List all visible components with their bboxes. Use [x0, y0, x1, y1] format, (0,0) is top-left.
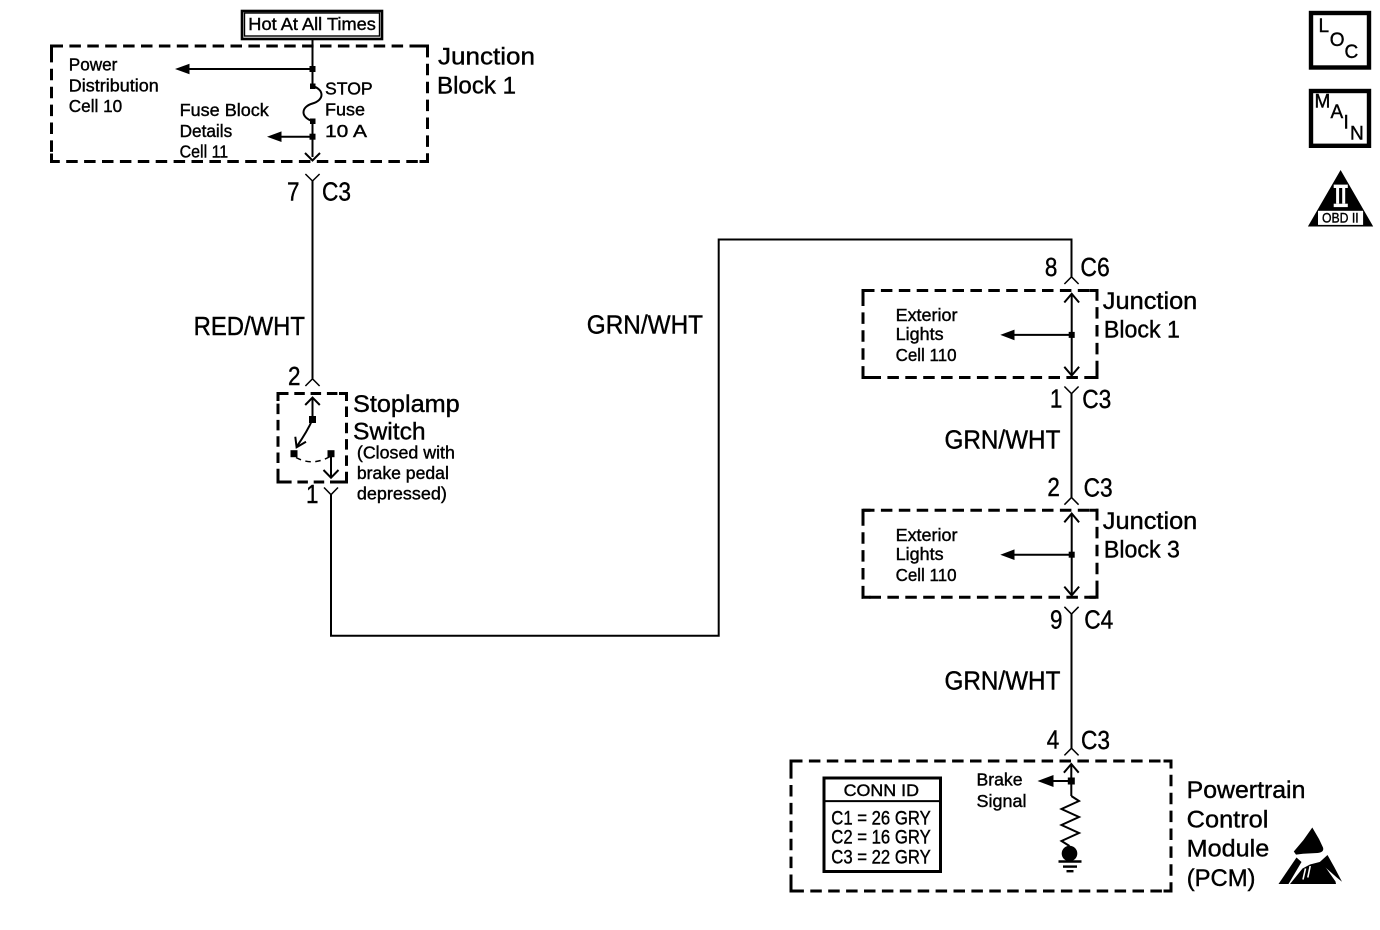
PCM node junction dot — [1068, 778, 1075, 785]
svg-text:C4: C4 — [1084, 605, 1113, 635]
svg-text:depressed): depressed) — [357, 483, 447, 503]
wire GRN/WHT between JB1 and JB3 — [1071, 394, 1073, 498]
svg-text:1: 1 — [306, 479, 319, 509]
svg-text:(Closed with: (Closed with — [357, 443, 455, 463]
svg-text:7: 7 — [287, 177, 300, 207]
JB3 arrow to Exterior Lights — [1000, 549, 1071, 560]
svg-text:2: 2 — [288, 361, 301, 391]
switch common node dot — [309, 416, 316, 423]
switch arrow down to pin 1 — [324, 454, 339, 478]
connector 9 C4 symbol — [1050, 605, 1113, 635]
wire from Hot At All Times into fuse — [312, 39, 314, 86]
svg-text:Block 3: Block 3 — [1104, 536, 1180, 563]
svg-text:Fuse Block: Fuse Block — [180, 100, 269, 120]
label Brake Signal — [977, 769, 1027, 811]
JB1 arrow to Exterior Lights — [1000, 330, 1071, 341]
wire GRN/WHT between JB3 and PCM — [1071, 614, 1073, 748]
svg-text:C3 = 22 GRY: C3 = 22 GRY — [831, 848, 931, 869]
label Fuse Block Details Cell 11 — [180, 100, 269, 161]
connector 8 C6 symbol — [1045, 252, 1110, 284]
connector 7 C3 symbol — [287, 174, 351, 207]
switch closed-position dashed arc — [296, 457, 330, 462]
svg-text:Powertrain: Powertrain — [1187, 777, 1306, 804]
svg-text:RED/WHT: RED/WHT — [194, 311, 305, 341]
label RED/WHT — [194, 311, 305, 341]
CONN ID table — [824, 778, 941, 872]
ESD warning symbol — [1279, 828, 1343, 885]
label Junction Block 1 (top) — [437, 44, 535, 100]
arrow to Power Distribution Cell 10 — [175, 64, 313, 75]
svg-text:C3: C3 — [322, 177, 351, 207]
MAIN legend box — [1311, 91, 1369, 146]
svg-text:GRN/WHT: GRN/WHT — [945, 424, 1061, 454]
svg-text:2: 2 — [1047, 472, 1060, 502]
svg-text:OBD II: OBD II — [1322, 210, 1359, 226]
label Junction Block 3 — [1103, 508, 1198, 563]
svg-text:Block 1: Block 1 — [437, 73, 516, 100]
svg-text:Cell 110: Cell 110 — [896, 345, 957, 365]
label Power Distribution Cell 10 — [69, 55, 159, 116]
svg-text:Module: Module — [1187, 836, 1270, 863]
label (Closed with brake pedal depressed) — [357, 443, 455, 504]
connector 1 symbol below stoplamp switch — [306, 479, 338, 509]
svg-text:C2 = 16 GRY: C2 = 16 GRY — [831, 828, 931, 849]
JB1 internal arrow down — [1064, 335, 1079, 376]
switch blade (open) with arrowhead — [295, 420, 312, 448]
node junction dot to Fuse Block Details — [310, 134, 316, 140]
svg-text:Fuse: Fuse — [325, 100, 365, 120]
svg-text:10 A: 10 A — [325, 121, 367, 141]
svg-text:O: O — [1330, 30, 1345, 51]
label Exterior Lights Cell 110 (JB3) — [896, 525, 958, 585]
JB1 internal arrow up — [1064, 294, 1079, 335]
svg-text:Junction: Junction — [438, 44, 535, 71]
OBD II triangle symbol — [1308, 170, 1373, 227]
connector 1 C3 symbol — [1050, 384, 1111, 414]
svg-text:9: 9 — [1050, 605, 1063, 635]
wire fuse to connector 7 C3 — [312, 121, 314, 157]
connector 2 symbol at stoplamp switch — [288, 361, 320, 391]
resistor (brake signal pull) — [1062, 781, 1080, 846]
svg-text:Lights: Lights — [896, 544, 944, 564]
svg-text:Exterior: Exterior — [896, 525, 958, 545]
svg-text:I: I — [1344, 112, 1349, 133]
svg-text:Stoplamp: Stoplamp — [353, 391, 460, 418]
connector 2 C3 symbol — [1047, 472, 1112, 505]
Hot At All Times label box — [242, 11, 382, 39]
wire from stoplamp switch to junction block 1 (long route) — [331, 240, 1072, 636]
svg-text:GRN/WHT: GRN/WHT — [945, 665, 1061, 695]
switch arrow up to pin 2 — [305, 398, 320, 420]
junction block 3 dashed box — [863, 510, 1097, 597]
label Exterior Lights Cell 110 (JB1) — [896, 305, 958, 365]
svg-text:Hot At All Times: Hot At All Times — [248, 14, 376, 34]
svg-text:Junction: Junction — [1103, 508, 1198, 535]
svg-text:Block 1: Block 1 — [1104, 316, 1180, 343]
arrow to Fuse Block Details Cell 11 — [267, 131, 313, 142]
svg-text:Cell 11: Cell 11 — [180, 142, 229, 162]
svg-text:8: 8 — [1045, 252, 1058, 282]
label Junction Block 1 (right) — [1103, 288, 1198, 343]
svg-text:CONN ID: CONN ID — [844, 782, 919, 800]
JB3 internal arrow down — [1064, 555, 1079, 596]
JB1 node junction dot — [1069, 332, 1075, 338]
svg-text:Lights: Lights — [896, 324, 944, 344]
label STOP Fuse 10 A — [325, 79, 373, 141]
svg-text:Brake: Brake — [977, 769, 1023, 789]
svg-text:C3: C3 — [1084, 472, 1113, 502]
stoplamp switch dashed box — [278, 394, 347, 483]
svg-text:Cell 10: Cell 10 — [69, 96, 123, 116]
svg-text:A: A — [1331, 102, 1344, 123]
label Powertrain Control Module (PCM) — [1187, 777, 1306, 892]
label Stoplamp Switch — [353, 391, 460, 446]
svg-text:Details: Details — [180, 121, 233, 141]
fuse STOP Fuse 10 A — [304, 84, 322, 125]
svg-text:Power: Power — [69, 55, 118, 75]
switch contact node right — [328, 450, 335, 457]
svg-text:C: C — [1345, 42, 1359, 63]
svg-text:M: M — [1315, 91, 1331, 112]
JB3 node junction dot — [1069, 552, 1075, 558]
LOC legend box — [1311, 13, 1369, 68]
powertrain control module dashed box — [791, 761, 1171, 891]
svg-text:STOP: STOP — [325, 79, 373, 99]
svg-text:Control: Control — [1187, 806, 1269, 833]
PCM arrow to Brake Signal — [1038, 775, 1072, 787]
svg-text:1: 1 — [1050, 384, 1063, 414]
node junction dot to Power Distribution — [310, 66, 316, 72]
svg-text:Exterior: Exterior — [896, 305, 958, 325]
switch contact node left — [291, 450, 298, 457]
label GRN/WHT (left) — [587, 310, 703, 340]
svg-text:C3: C3 — [1081, 725, 1110, 755]
svg-text:4: 4 — [1047, 724, 1060, 754]
connector 4 C3 symbol — [1047, 724, 1110, 755]
label GRN/WHT (middle right) — [945, 424, 1061, 454]
svg-text:(PCM): (PCM) — [1187, 865, 1256, 892]
svg-text:Cell 110: Cell 110 — [896, 565, 957, 585]
label GRN/WHT (lower right) — [945, 665, 1061, 695]
svg-text:Distribution: Distribution — [69, 75, 159, 95]
svg-text:Switch: Switch — [353, 418, 426, 445]
svg-text:L: L — [1319, 16, 1330, 37]
junction block 1 dashed box (right) — [863, 291, 1097, 378]
JB3 internal arrow up — [1064, 514, 1079, 555]
svg-text:brake pedal: brake pedal — [357, 463, 449, 483]
svg-text:N: N — [1350, 124, 1364, 145]
svg-text:Signal: Signal — [977, 791, 1027, 811]
svg-text:C1 = 26 GRY: C1 = 26 GRY — [831, 808, 931, 829]
svg-text:C3: C3 — [1082, 384, 1111, 414]
junction block 1 (fuse block) dashed box — [52, 46, 428, 162]
ground symbol — [1059, 846, 1082, 872]
svg-text:GRN/WHT: GRN/WHT — [587, 310, 703, 340]
PCM internal arrow up — [1064, 764, 1079, 781]
svg-text:C6: C6 — [1080, 252, 1109, 282]
wire RED/WHT vertical — [312, 181, 314, 379]
svg-text:Junction: Junction — [1103, 288, 1198, 315]
arrowhead down at block exit — [305, 153, 320, 161]
